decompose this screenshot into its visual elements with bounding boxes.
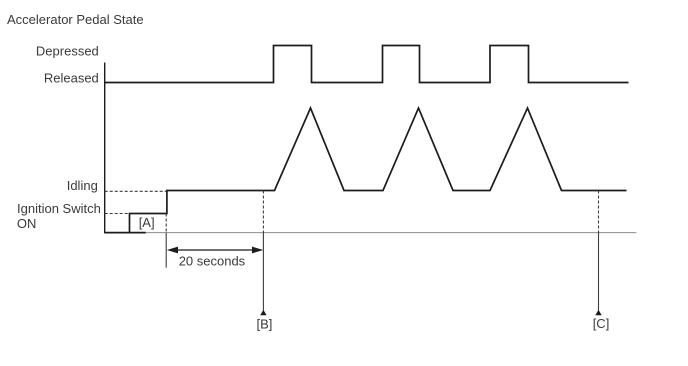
- svg-text:Ignition Switch: Ignition Switch: [17, 201, 101, 216]
- svg-text:[A]: [A]: [139, 215, 155, 230]
- svg-text:Accelerator Pedal State: Accelerator Pedal State: [7, 12, 144, 27]
- svg-text:Idling: Idling: [67, 178, 98, 193]
- svg-text:[B]: [B]: [257, 316, 273, 331]
- svg-text:Depressed: Depressed: [36, 44, 99, 59]
- svg-text:[C]: [C]: [593, 316, 610, 331]
- svg-text:20 seconds: 20 seconds: [179, 253, 246, 268]
- svg-text:ON: ON: [17, 216, 37, 231]
- svg-text:Released: Released: [44, 71, 99, 86]
